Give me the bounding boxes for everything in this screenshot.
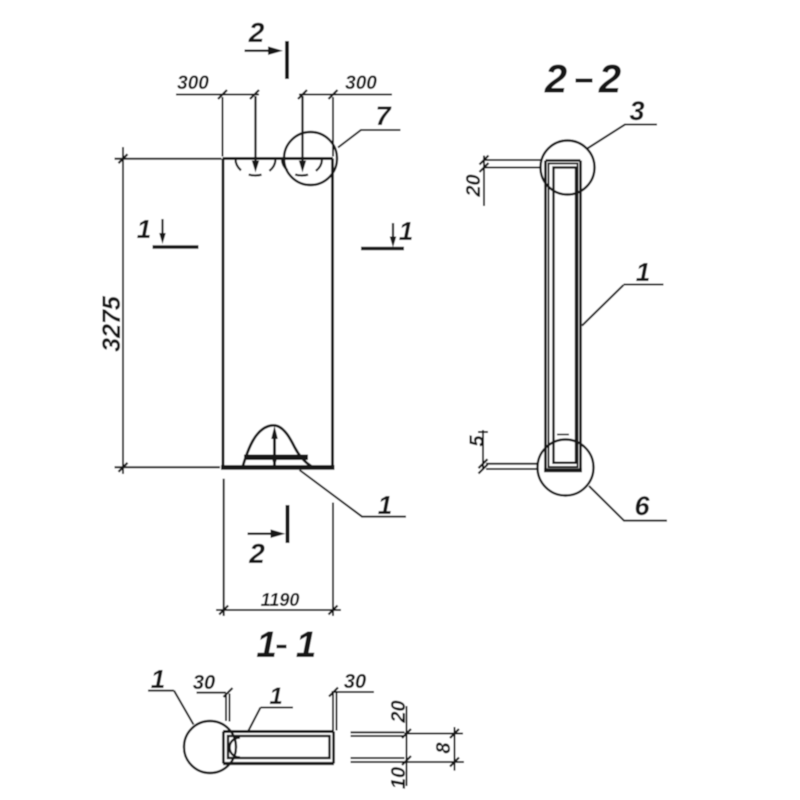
leader 7 (338, 130, 401, 148)
section mark 2 (bottom) (286, 505, 290, 543)
svg-text:1: 1 (269, 683, 282, 710)
svg-text:7: 7 (375, 101, 392, 131)
svg-text:10: 10 (388, 767, 410, 789)
dimension 300 right (299, 94, 392, 96)
svg-text:1: 1 (378, 490, 392, 520)
panel outline (front view) (221, 159, 335, 468)
lifting loop right axis (301, 96, 303, 162)
bottom loop anchor bar (244, 455, 308, 461)
svg-text:300: 300 (345, 73, 377, 94)
svg-text:300: 300 (177, 73, 209, 94)
svg-text:1: 1 (636, 257, 650, 287)
svg-text:30: 30 (193, 672, 215, 694)
bottom loop axis (273, 432, 276, 466)
svg-text:30: 30 (344, 671, 366, 693)
dimension 300 left (176, 94, 259, 96)
svg-text:2: 2 (248, 17, 265, 48)
svg-text:20: 20 (463, 174, 485, 197)
channel rounded end cap (230, 738, 241, 758)
section mark 1 (right) (361, 247, 404, 251)
dimension 3275 (122, 147, 124, 474)
svg-text:2: 2 (248, 538, 265, 569)
svg-text:1190: 1190 (261, 590, 300, 610)
svg-text:5: 5 (467, 435, 489, 447)
lifting loop right (dashed arc) (282, 159, 322, 176)
callout circle 1 (section 1-1) (184, 721, 236, 773)
svg-text:1: 1 (399, 216, 413, 246)
svg-text:1: 1 (256, 624, 277, 665)
section 2-2 panel outer (544, 161, 582, 471)
svg-text:2: 2 (544, 58, 567, 102)
svg-text:3275: 3275 (98, 295, 126, 352)
callout circle 6 (538, 440, 594, 496)
break dash inside channel (557, 434, 569, 436)
dimension 20 (section 2-2) (483, 156, 485, 207)
bottom lifting loop (mound) (243, 425, 313, 467)
leader 3 (587, 125, 658, 150)
svg-text:8: 8 (433, 742, 455, 754)
dimension 5 (section 2-2) (482, 430, 484, 470)
callout circle 3 (541, 141, 595, 195)
svg-text:3: 3 (629, 96, 644, 126)
lifting loop left (dashed arc) (236, 159, 276, 176)
callout circle 7 (284, 132, 337, 185)
leader 6 (589, 486, 667, 521)
svg-text:1: 1 (296, 624, 317, 665)
svg-text:6: 6 (634, 491, 650, 521)
dimension 1190 (223, 479, 225, 616)
svg-text:2: 2 (598, 58, 621, 102)
lifting loop left axis (254, 96, 256, 162)
dimension 8 (section 1-1 far right) (405, 733, 464, 735)
leader 1 (bottom loop) (300, 470, 407, 517)
section 2-2 inner wall line (549, 164, 578, 468)
dimension 20 (section 1-1 right) (351, 731, 405, 733)
svg-text:1: 1 (137, 214, 151, 244)
dimension 10 (section 1-1 right) (351, 757, 405, 759)
svg-text:20: 20 (388, 700, 410, 723)
section 2-2 channel void (554, 168, 577, 463)
section 1-1 channel void (228, 736, 330, 758)
section 1-1 panel outer (223, 732, 334, 764)
svg-text:1: 1 (151, 664, 165, 694)
